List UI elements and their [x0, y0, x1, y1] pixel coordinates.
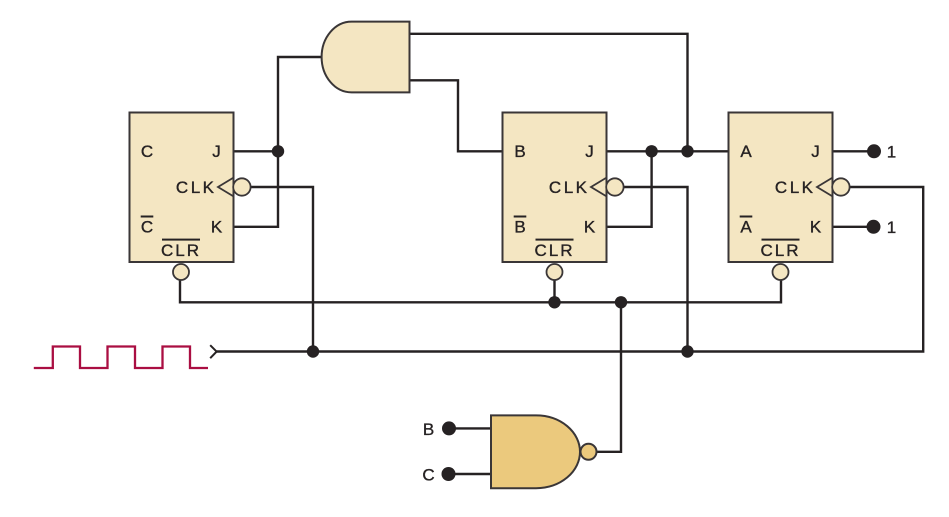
- junction: CLR rail NAND output: [615, 296, 627, 308]
- svg-text:J: J: [212, 142, 221, 161]
- svg-text:CLK: CLK: [176, 178, 217, 197]
- svg-text:B: B: [514, 218, 525, 237]
- U3 pin label A: [740, 142, 752, 161]
- wire: FF1 CLK to clock line: [250, 187, 313, 352]
- svg-text:J: J: [585, 142, 594, 161]
- U2 pin label B: [514, 142, 525, 161]
- svg-text:1: 1: [887, 142, 896, 161]
- U1 CLK bubble: [233, 178, 250, 195]
- U3 pin label A-bar: [740, 216, 753, 237]
- svg-text:K: K: [211, 218, 223, 237]
- wire: AND gate output down to J1/K1 tie: [234, 57, 322, 227]
- svg-text:K: K: [810, 218, 822, 237]
- svg-text:CLR: CLR: [760, 241, 800, 260]
- U3 pin label K: [810, 218, 822, 237]
- wire: FF3 K to logic-1 terminal: [833, 226, 874, 228]
- U1 CLK edge triangle: [218, 178, 234, 197]
- wire: NAND output up to CLR rail: [597, 302, 622, 452]
- flip-flop U3 (A) body: [729, 113, 833, 263]
- terminal: NAND input B: [442, 421, 456, 435]
- svg-text:C: C: [422, 466, 434, 485]
- svg-text:C: C: [141, 142, 153, 161]
- U2 CLR bubble: [547, 264, 563, 280]
- value label 1 at FF3 K: [887, 218, 896, 237]
- wire: FF2 CLR stub: [553, 280, 555, 302]
- U3 pin label CLK: [775, 178, 816, 197]
- svg-text:B: B: [423, 420, 434, 439]
- U2 CLK edge triangle: [591, 178, 607, 197]
- U3 CLK bubble: [832, 178, 849, 195]
- clock input chevron: [210, 345, 216, 358]
- flip-flop U2 (B) body: [503, 113, 607, 263]
- svg-text:1: 1: [887, 218, 896, 237]
- junction: CLR rail FF2: [548, 296, 560, 308]
- terminal: FF3 J logic 1: [867, 144, 881, 158]
- junction: A line to AND top input: [681, 145, 693, 157]
- U1 pin label CLK: [176, 178, 217, 197]
- svg-text:C: C: [141, 218, 153, 237]
- svg-text:CLR: CLR: [534, 241, 574, 260]
- U2 pin label B-bar: [514, 216, 527, 237]
- U1 pin label J: [212, 142, 221, 161]
- junction: clock line FF1 tap: [307, 345, 319, 357]
- U2 pin label CLR with overbar: [534, 239, 574, 260]
- svg-text:J: J: [811, 142, 820, 161]
- U3 pin label J: [811, 142, 820, 161]
- value label 1 at FF3 J: [887, 142, 896, 161]
- U1 pin label CLR with overbar: [161, 239, 201, 260]
- wire: A output line from FF2 J to FF3: [607, 150, 729, 152]
- wire: CLR rail from FF1 to FF3: [180, 280, 781, 302]
- terminal: NAND input C: [442, 467, 456, 481]
- U2 pin label CLK: [549, 178, 590, 197]
- svg-text:K: K: [584, 218, 596, 237]
- U1 pin label C: [141, 142, 153, 161]
- U2 pin label J: [585, 142, 594, 161]
- svg-text:A: A: [740, 142, 752, 161]
- wire: NAND input C: [449, 473, 492, 475]
- node label B (NAND input): [423, 420, 434, 439]
- U3 pin label CLR with overbar: [760, 239, 800, 260]
- terminal: FF3 K logic 1: [867, 220, 881, 234]
- NAND gate G2 body: [491, 415, 580, 488]
- junction: A line to J2/K2 tie: [645, 145, 657, 157]
- node label C (NAND input): [422, 466, 434, 485]
- wire: FF1 J stub to tie vertical: [234, 150, 279, 152]
- flip-flop U1 (C) body: [130, 113, 234, 263]
- clock waveform: [34, 347, 208, 369]
- svg-text:A: A: [740, 218, 752, 237]
- AND gate G1: [322, 22, 410, 93]
- wire: J2/K2 tie: [607, 151, 652, 227]
- svg-text:CLK: CLK: [775, 178, 816, 197]
- U1 pin label K: [211, 218, 223, 237]
- svg-text:B: B: [514, 142, 525, 161]
- junction: AND output to J1: [272, 145, 284, 157]
- wire: FF3 J to logic-1 terminal: [833, 150, 875, 152]
- wire: AND gate top input from A-output node: [410, 34, 688, 152]
- NAND gate G2 output bubble: [581, 444, 597, 460]
- U3 CLK edge triangle: [817, 178, 833, 197]
- svg-text:CLK: CLK: [549, 178, 590, 197]
- U3 CLR bubble: [773, 264, 789, 280]
- U2 pin label K: [584, 218, 596, 237]
- wire: AND gate bottom input from B output: [410, 80, 504, 151]
- U1 CLR bubble: [173, 264, 189, 280]
- U1 pin label C-bar: [141, 216, 154, 237]
- junction: clock line FF2 tap: [681, 345, 693, 357]
- U2 CLK bubble: [606, 178, 623, 195]
- svg-text:CLR: CLR: [161, 241, 201, 260]
- wire: FF2 CLK to clock line: [623, 187, 688, 352]
- wire: NAND input B: [449, 427, 491, 429]
- wire: main clock line from chevron to right side up to FF3 CLK: [217, 187, 924, 352]
